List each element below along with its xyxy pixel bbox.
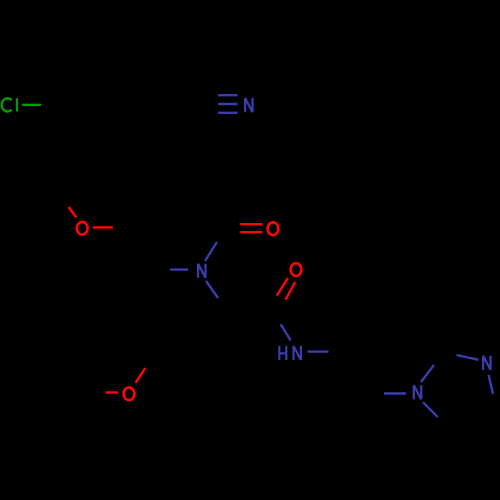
bond C-NH (blue half) [281, 324, 291, 340]
bond N-C(=O) up-right (blue half) [205, 242, 217, 261]
bond N3-C4 (blue half) [489, 375, 493, 394]
pyran O label [77, 222, 88, 235]
imidazole N3 label [483, 356, 490, 370]
amide HN label [279, 346, 301, 360]
bond O-C diagonal (red half) [136, 368, 146, 383]
lactam O label [268, 222, 279, 235]
bond C2=N3 (blue half) [457, 355, 479, 360]
amide C=O double bond (red halves) [277, 278, 295, 300]
nitrile N label [245, 98, 252, 112]
bond Cl-C (green half) [22, 104, 41, 106]
lactam C=O double bond (red halves) [240, 224, 262, 232]
nitrile triple bond C#N (blue half) [218, 95, 237, 113]
bond CH2-N1 (blue half) [384, 392, 406, 394]
bond CH3-O (red half) [106, 391, 119, 393]
bond N-CH down-right (blue half) [206, 281, 218, 298]
imidazole N1 label [414, 385, 421, 399]
bond N1-C2 (blue half) [421, 365, 434, 382]
ring N label [198, 264, 205, 278]
bond N1-C5 (blue half) [423, 402, 438, 417]
bond C-O diagonal (red half) [69, 207, 77, 218]
chlorine label Cl [2, 98, 17, 111]
methoxy O label [124, 387, 135, 400]
bond N-CH2 left (blue half) [170, 268, 188, 270]
bond O-C horizontal (red half) [93, 226, 113, 228]
bond NH-CH2 (blue half) [308, 350, 329, 352]
amide O label [291, 263, 302, 276]
